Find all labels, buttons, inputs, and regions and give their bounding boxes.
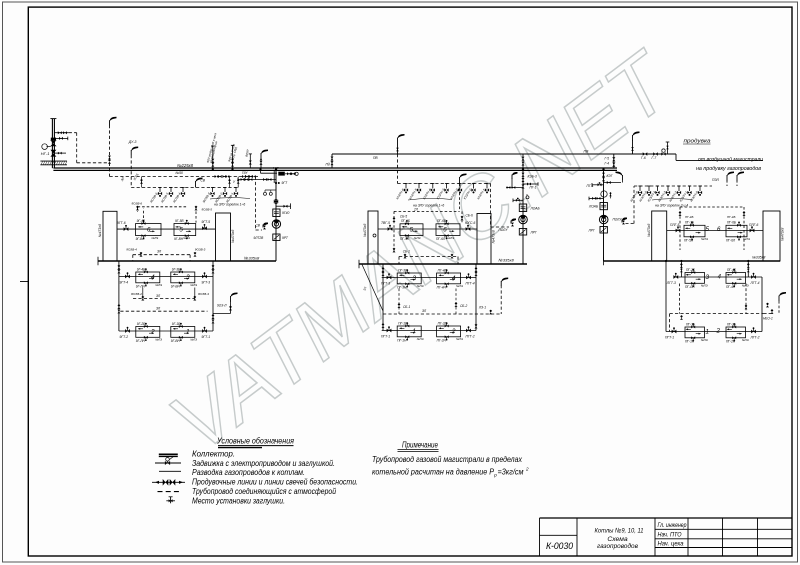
burner row B pipe G2 <box>382 277 476 279</box>
atmosphere vent stems G2 <box>395 184 489 201</box>
vent flag НЕО-1 G3 <box>763 292 786 321</box>
svg-text:ПГ-1Б: ПГ-1Б <box>398 321 407 325</box>
label КЭБ-3 <box>528 174 537 178</box>
title block Схема <box>607 536 628 543</box>
blowdown dashed ЗЛ-1 G1 <box>133 288 196 301</box>
burner cluster 3 G2 <box>397 268 423 289</box>
gauge on rect G2 <box>373 234 376 237</box>
vent flag ЛЗ-1 G2 <box>478 278 508 315</box>
burner cluster 4 G2 <box>437 268 463 289</box>
svg-text:ПГ-4Б: ПГ-4Б <box>438 268 447 272</box>
svg-text:ЮГС-6: ЮГС-6 <box>465 221 476 225</box>
row C valve ПГТ-1 G3 <box>665 327 676 339</box>
svg-text:ПОЛУ: ПОЛУ <box>499 228 509 232</box>
svg-text:на продувку газопроводов: на продувку газопроводов <box>696 166 761 172</box>
svg-text:ПГ-2Б: ПГ-2Б <box>686 268 695 272</box>
svg-text:Г-6: Г-6 <box>641 156 646 160</box>
burner cluster 6 G3 <box>726 221 750 243</box>
burner cluster 2 G3 <box>726 322 749 343</box>
label №473x8 right G1 <box>231 230 235 243</box>
burner row A pipe G2 <box>378 228 477 230</box>
svg-text:ПГТ-3: ПГТ-3 <box>381 282 390 286</box>
main gas pipeline №225х8 <box>53 168 617 170</box>
svg-text:2Л: 2Л <box>413 208 419 212</box>
svg-text:ПГТ-1: ПГТ-1 <box>381 335 390 339</box>
svg-text:Г-4: Г-4 <box>605 161 610 165</box>
legend pipe symbol <box>159 470 181 472</box>
row B valve ПГТ-4 <box>466 273 475 285</box>
svg-text:ПГ-6Л: ПГ-6Л <box>436 237 446 241</box>
wall penetration hatch <box>40 161 67 165</box>
inner riser right G3 <box>747 261 750 277</box>
svg-text:ПГ-1Н: ПГ-1Н <box>397 338 407 342</box>
burner numbers row B G3 <box>706 274 722 282</box>
svg-text:6: 6 <box>443 227 447 234</box>
svg-text:5: 5 <box>706 226 710 233</box>
svg-text:Г-7: Г-7 <box>652 156 657 160</box>
svg-text:СБ-2: СБ-2 <box>460 304 467 308</box>
svg-text:ПГ-2Б: ПГ-2Б <box>438 321 447 325</box>
svg-text:1: 1 <box>706 329 709 336</box>
left riser G3 <box>665 261 667 332</box>
label от воздушной магистрали <box>698 156 763 163</box>
svg-text:9Г-ВН: 9Г-ВН <box>171 339 181 343</box>
burner row A pipe G3 <box>667 230 763 232</box>
svg-text:9ГТ: 9ГТ <box>282 181 289 185</box>
svg-text:ЗЛ: ЗЛ <box>156 307 161 311</box>
svg-text:9ЛТ2В: 9ЛТ2В <box>254 236 265 240</box>
inlet gate valve НГ-1 <box>42 138 57 150</box>
blowdown dashed ЗЛ-0 G2 <box>399 254 458 264</box>
row C valve 9ГТ-2 <box>120 327 130 339</box>
svg-text:ЗЛ: ЗЛ <box>156 294 161 298</box>
burner cluster 3 G3 <box>685 268 708 289</box>
label №335x8 G2 <box>499 258 515 263</box>
svg-text:Продувочные линии и линии свеч: Продувочные линии и линии свечей безопас… <box>192 478 358 487</box>
svg-text:ПЭЛ: ПЭЛ <box>712 178 720 182</box>
svg-text:№473х8: №473х8 <box>363 224 367 237</box>
label №473x8 left G1 <box>98 224 102 237</box>
inner riser left G3 <box>680 261 683 277</box>
legend text Место <box>192 496 285 505</box>
svg-text:ПГ-1Б: ПГ-1Б <box>685 221 694 225</box>
regulator 2 branch left <box>513 198 523 203</box>
note title Примечание <box>398 439 439 451</box>
svg-text:Задвижка с электроприводом и з: Задвижка с электроприводом и заглушкой. <box>192 459 335 468</box>
svg-text:ПГ-6Л: ПГ-6Л <box>726 238 736 242</box>
svg-text:НЕО-1: НЕО-1 <box>763 317 773 321</box>
svg-text:Коллектор.: Коллектор. <box>192 449 235 458</box>
svecha dashed net G2 rowA <box>393 184 464 253</box>
label №473x8 left G3 <box>647 224 651 237</box>
row A valve ПЛГ-5 <box>670 223 680 232</box>
main-to-header jog <box>331 154 333 168</box>
valve on Зд line <box>140 177 143 188</box>
regulator ЛРГ G2 <box>519 229 537 236</box>
burner numbers row C G3 <box>706 328 721 336</box>
junction dots G3 <box>665 260 750 262</box>
label ф20Л <box>244 149 250 157</box>
svg-text:ПГ-6Б: ПГ-6Б <box>437 219 446 223</box>
svg-text:ПГ-1Н: ПГ-1Н <box>685 339 695 343</box>
filter ЛОАБ G3 <box>588 203 607 210</box>
row B valve ЛГТ-4 <box>750 273 760 285</box>
burner cluster 1 G2 <box>397 321 423 342</box>
right riser G2 <box>475 264 478 331</box>
label №335x8 G3 <box>752 256 765 260</box>
svg-text:Котлы №9, 10, 11: Котлы №9, 10, 11 <box>595 527 644 534</box>
main line tap dots <box>212 168 605 171</box>
header solenoid valve <box>661 149 665 156</box>
svg-text:НГ-1: НГ-1 <box>41 151 50 156</box>
svg-text:ЗЛ: ЗЛ <box>157 250 162 254</box>
svg-text:9Г-ВЛ: 9Г-ВЛ <box>136 237 146 241</box>
regulator 2 upper tie <box>522 154 525 168</box>
main line end valves Г-5 Г-4 <box>605 154 616 168</box>
svg-text:ЛЗ-1: ЛЗ-1 <box>478 306 486 310</box>
svg-text:№ЛЭ: №ЛЭ <box>190 338 197 342</box>
svg-text:ПГ-5Л: ПГ-5Л <box>400 237 410 241</box>
svg-text:КЭБ-3: КЭБ-3 <box>528 174 537 178</box>
legend valve symbol <box>155 457 181 466</box>
svg-text:1: 1 <box>186 329 189 336</box>
svg-text:ПГ-2Н: ПГ-2Н <box>437 338 447 342</box>
legend collector symbol <box>159 454 178 456</box>
svg-text:газопроводов: газопроводов <box>597 542 638 550</box>
svg-text:ПГ-4Б: ПГ-4Б <box>727 268 736 272</box>
main vent flag СВ <box>260 150 269 169</box>
svg-text:Разводка газопроводов к котлам: Разводка газопроводов к котлам. <box>192 468 305 477</box>
regulator 1 row2 <box>238 178 276 182</box>
dashed svecha line G1 <box>256 177 263 231</box>
svg-text:Г-5: Г-5 <box>605 156 610 160</box>
burner row B pipe G3 <box>674 276 762 278</box>
vent flags G3 top <box>727 172 744 187</box>
svg-text:№ЛЭ: №ЛЭ <box>417 337 424 341</box>
svg-text:котельной расчитан на давление: котельной расчитан на давление Р <box>372 468 495 477</box>
svg-text:№473х8: №473х8 <box>780 228 784 241</box>
dashed drop right G3 <box>745 284 748 314</box>
blowdown dashed row G3 <box>670 314 764 332</box>
svecha valve G3 <box>613 186 635 224</box>
title block grid <box>540 518 793 556</box>
svg-text:№ЛЭ: №ЛЭ <box>701 237 708 241</box>
svg-text:9ОЗВ-6: 9ОЗВ-6 <box>132 201 143 205</box>
svg-text:СБ-6: СБ-6 <box>466 214 473 218</box>
svg-text:№225х8: №225х8 <box>177 163 194 168</box>
svg-text:ЛГТ-2: ЛГТ-2 <box>750 336 760 340</box>
right riser G3 <box>761 277 763 332</box>
svg-text:ЛГТ-3: ЛГТ-3 <box>666 281 676 285</box>
svg-text:9Г40: 9Г40 <box>282 211 289 215</box>
svg-text:№ЛЭ: №ЛЭ <box>414 236 421 240</box>
svg-text:9Г-ЛН: 9Г-ЛН <box>136 284 146 288</box>
blowdown dashed ЗЛ-2 G1 <box>120 307 207 312</box>
collector pipe №335x8 G2 <box>359 260 527 268</box>
boiler collector left G3 <box>652 211 667 261</box>
svg-text:3: 3 <box>186 274 190 281</box>
svg-text:9Г-ВН: 9Г-ВН <box>171 284 181 288</box>
svg-text:ЛОАБ: ЛОАБ <box>588 205 599 209</box>
svg-text:ЗЛ: ЗЛ <box>422 309 427 313</box>
dashed svecha line G2 <box>491 184 510 228</box>
boiler collector right G3 <box>763 211 780 261</box>
blowdown dashed row G2 <box>383 309 501 314</box>
svg-text:№335х8: №335х8 <box>752 256 765 260</box>
svg-text:КЭГ: КЭГ <box>607 174 613 178</box>
burner cluster 4 G1 <box>136 267 162 288</box>
legend text Трубопровод <box>192 487 336 496</box>
label №473x8 right G3 <box>780 228 784 241</box>
burner cluster 5 G1 <box>174 219 196 241</box>
plug symbol hatched <box>278 172 285 176</box>
right riser G1 <box>212 261 215 331</box>
svg-text:9Г-3Б: 9Г-3Б <box>172 267 180 271</box>
svg-text:ПГ-4Б: ПГ-4Б <box>727 215 735 219</box>
svg-text:9ГТ-6: 9ГТ-6 <box>117 221 126 225</box>
burner cluster 1 G3 <box>685 322 708 343</box>
pump unit 1 <box>272 220 280 228</box>
svecha dashed net G1 rowA <box>132 201 213 222</box>
svg-text:№ЛЭ: №ЛЭ <box>417 284 424 288</box>
svg-text:К-0030: К-0030 <box>546 541 573 551</box>
regulator 3 column <box>603 170 605 261</box>
svg-text:ПГТ-2: ПГТ-2 <box>466 335 475 339</box>
vent flag G2 СВ <box>460 174 467 184</box>
regulator 3 column valves <box>602 173 605 182</box>
svg-text:№ЛЭ: №ЛЭ <box>190 283 197 287</box>
header outlet drop <box>676 154 763 160</box>
svg-text:на ЗЛУ горелок 1÷6: на ЗЛУ горелок 1÷6 <box>214 202 245 206</box>
legend blowdown symbol <box>152 479 185 486</box>
svg-text:6: 6 <box>147 227 151 234</box>
svg-text:№50: №50 <box>176 171 184 175</box>
svg-text:2: 2 <box>716 328 721 335</box>
pump unit 3 <box>599 215 608 224</box>
svg-text:ПГ-1Б: ПГ-1Б <box>401 219 410 223</box>
svg-text:№ЛЭ: №ЛЭ <box>456 284 463 288</box>
legend text Разводка <box>192 468 305 477</box>
flag vent ДУ-3 <box>128 140 138 187</box>
svg-text:4: 4 <box>151 274 155 281</box>
label НГ-1 <box>41 151 50 156</box>
svg-text:ДУ-3: ДУ-3 <box>128 140 137 144</box>
legend text Коллектор <box>192 449 235 458</box>
label №225х8 <box>177 163 194 168</box>
svg-text:от воздушной магистрали: от воздушной магистрали <box>698 156 763 163</box>
svg-text:ПОЛУ: ПОЛУ <box>613 217 623 221</box>
watermark VATMANC.NET <box>161 30 681 475</box>
svg-text:ПГ-4Н: ПГ-4Н <box>437 285 447 289</box>
label №473x8 right G2 <box>491 230 495 243</box>
svg-text:ТВГ-5: ТВГ-5 <box>381 221 390 225</box>
svg-text:ПГ-2Н: ПГ-2Н <box>726 339 736 343</box>
svg-text:9ГТ-4: 9ГТ-4 <box>120 281 129 285</box>
regulator 3 branch right <box>604 172 623 185</box>
svg-text:Пд: Пд <box>326 163 330 167</box>
regulator 1 column <box>275 170 277 261</box>
dashed header Зд <box>110 176 259 178</box>
atmosphere vent stems G3 <box>629 186 702 203</box>
header vent stub <box>666 142 670 154</box>
burner cluster 1 G1 <box>171 322 197 343</box>
svg-text:ЯОЗВ-2: ЯОЗВ-2 <box>130 292 142 296</box>
vent flag G1 СВ <box>196 178 206 188</box>
row A valve ЭГТ-5 <box>202 220 211 230</box>
svg-text:ПГ-1: ПГ-1 <box>530 186 537 190</box>
inlet branch 3 <box>54 152 66 155</box>
svecha flag stub G2 <box>506 172 523 189</box>
svg-text:ПГТ-1: ПГТ-1 <box>665 336 674 340</box>
burner cluster 2 G1 <box>136 322 162 343</box>
svg-text:9РТ: 9РТ <box>282 236 289 240</box>
boiler collector right G2 <box>477 214 491 265</box>
title block К-0030 <box>546 541 573 551</box>
svg-text:Примечание: Примечание <box>402 439 438 449</box>
svg-text:ПГ-5Л: ПГ-5Л <box>684 238 694 242</box>
label ЯОЗВ-2 G1 <box>130 292 142 296</box>
row C valve ПГТ-2 <box>466 326 475 338</box>
row A valve ТВГ-5 <box>381 221 392 231</box>
label продувка <box>683 139 711 145</box>
svg-text:9ОЗ-Л: 9ОЗ-Л <box>217 304 227 308</box>
frame centering tick <box>20 281 28 283</box>
dashed vent header G2 <box>398 183 491 185</box>
legend text Продувочные <box>192 478 358 487</box>
label Ф20 отбор проб <box>206 132 219 163</box>
stub valve У2 <box>237 177 240 188</box>
flag vent F1 <box>108 117 117 177</box>
legend dashed symbol <box>158 491 180 493</box>
svg-text:№335х8: №335х8 <box>499 258 515 263</box>
svg-text:ПГ-1: ПГ-1 <box>587 184 594 188</box>
burner cluster 6 G1 <box>136 219 161 241</box>
inlet branch 1 <box>54 131 68 134</box>
row A valve ЭГТ-6 <box>117 221 128 231</box>
legend plug symbol <box>166 497 175 504</box>
svg-text:ЛОАБ: ЛОАБ <box>530 206 541 210</box>
svg-text:ПВ: ПВ <box>373 156 378 160</box>
note line 2 <box>372 467 529 478</box>
label на продувку газопроводов <box>696 166 761 172</box>
svg-text:9ГТ-1: 9ГТ-1 <box>202 335 211 339</box>
row B valve ПГТ-3 <box>381 273 391 285</box>
svg-text:№ЛЭ: №ЛЭ <box>155 338 162 342</box>
label ПВ left <box>373 156 378 160</box>
svg-text:9Г-5В: 9Г-5В <box>175 219 184 223</box>
label №473x8 left G2 <box>363 224 367 237</box>
burner cluster 3 G1 <box>171 267 197 288</box>
pump unit 2 <box>519 215 528 224</box>
svg-text:9Г-4Б: 9Г-4Б <box>137 267 145 271</box>
regulator 1 branch right <box>276 203 291 209</box>
svg-text:ПГ-6Б: ПГ-6Б <box>727 221 736 225</box>
svg-text:№473х8: №473х8 <box>647 224 651 237</box>
svg-text:9ОЗВ-3: 9ОЗВ-3 <box>195 248 206 252</box>
boiler collector right G1 <box>216 213 231 261</box>
svg-text:ПГ-1Б: ПГ-1Б <box>686 322 695 326</box>
title block газопроводов <box>597 542 638 550</box>
svg-text:5: 5 <box>179 227 183 234</box>
regulator 2 branch right <box>523 182 538 189</box>
legend text Задвижка <box>192 459 335 468</box>
label №335x8 G1 <box>244 256 260 261</box>
svg-text:Трубопровод газовой магистрали: Трубопровод газовой магистрали в предела… <box>372 455 523 464</box>
burner numbers row A G3 <box>706 226 722 233</box>
left riser G2 <box>382 264 385 331</box>
label 9ОТБ <box>132 173 139 181</box>
svg-text:№473х8: №473х8 <box>98 224 102 237</box>
regulator 3 branch left 2 <box>589 192 612 200</box>
note line 1 <box>372 455 523 464</box>
svg-text:№ЛЭ: №ЛЭ <box>701 338 708 342</box>
label ЯОЗВ-3 G1 <box>197 292 209 296</box>
svg-text:Нач. цеха: Нач. цеха <box>658 542 685 548</box>
blowdown header pipe <box>332 153 676 155</box>
row C valve ПГТ-1 <box>381 326 391 338</box>
collector pipe №335x8 G3 <box>604 257 781 265</box>
svg-text:СБ-1: СБ-1 <box>403 305 410 309</box>
svg-text:№ЛЭ: №ЛЭ <box>742 338 749 342</box>
label СБ-5 <box>400 215 407 219</box>
svg-text:№ЛЭ: №ЛЭ <box>155 283 162 287</box>
svg-text:продувка: продувка <box>684 139 712 145</box>
burner cluster 6 G2 <box>436 219 460 241</box>
svg-text:ПГТ-4: ПГТ-4 <box>466 282 475 286</box>
svg-text:Место установки заглушки.: Место установки заглушки. <box>192 496 285 505</box>
svg-text:2: 2 <box>150 329 155 336</box>
svg-text:ПВ: ПВ <box>584 150 590 154</box>
svg-text:4 УГ: 4 УГ <box>273 166 279 170</box>
svg-text:4: 4 <box>718 274 722 281</box>
row C valve 9ГТ-1 <box>202 327 211 339</box>
svg-text:9ГТ-3: 9ГТ-3 <box>202 281 211 285</box>
sample line Ф20 <box>211 146 214 168</box>
svg-text:ЛРГ: ЛРГ <box>530 231 537 235</box>
burner row B pipe G1 <box>119 276 213 278</box>
regulator 2 column <box>522 170 524 264</box>
svg-text:СБ-5: СБ-5 <box>400 215 407 219</box>
label СБ-3 <box>403 250 410 254</box>
label СУГ <box>273 166 279 170</box>
svg-text:№ЛЭ: №ЛЭ <box>701 284 708 288</box>
label ГдУ <box>242 171 248 175</box>
label Пд <box>326 163 330 167</box>
svg-text:ПГ-4Б: ПГ-4Б <box>685 215 693 219</box>
filter ЛОАБ G2 <box>519 204 540 212</box>
header end valves Г-6 Г-7 <box>641 152 658 160</box>
svg-text:№ЛЭ: №ЛЭ <box>742 284 749 288</box>
regulator 2 column valves <box>522 173 525 189</box>
svg-text:Трубопровод соединяющийся с ат: Трубопровод соединяющийся с атмосферой <box>192 487 336 496</box>
legend title <box>216 436 294 448</box>
slant pipe G2 <box>362 265 383 312</box>
svg-text:Условные обозначения: Условные обозначения <box>216 436 294 446</box>
gauge on regulator 3 <box>601 191 607 197</box>
svg-text:ПГ-ЛИ: ПГ-ЛИ <box>685 285 695 289</box>
flag vent G2 <box>396 134 404 184</box>
gauge on regulator 2 <box>526 194 529 199</box>
svg-text:ПГ-4Н: ПГ-4Н <box>726 285 736 289</box>
svg-text:ПГ-2Б: ПГ-2Б <box>727 322 736 326</box>
svg-text:2: 2 <box>451 328 456 335</box>
row B valve 9ГТ-4 <box>120 272 130 284</box>
label Зд <box>120 177 125 182</box>
svg-text:ЛРГ: ЛРГ <box>588 229 595 233</box>
svg-text:№ЛЭ: №ЛЭ <box>447 236 454 240</box>
title block Гл. инженер <box>658 523 688 529</box>
svg-text:№335х8: №335х8 <box>244 256 260 261</box>
